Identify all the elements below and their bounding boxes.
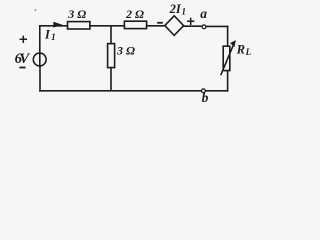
diamond plus sign [187,18,194,25]
wire through source [39,53,41,66]
speckle dot (scan artifact) [35,9,37,11]
wire right vertical (bottom) [227,71,229,91]
source plus sign [20,36,27,43]
dependent source diamond 2I1 [165,16,184,36]
svg-text:3 Ω: 3 Ω [67,7,86,21]
node b (open terminal) [202,89,206,93]
wire left vertical (top) [39,26,41,53]
wire top-left horizontal (source to 3-ohm resistor) [40,25,68,27]
resistor 2 ohm [124,21,146,28]
wire left vertical (bottom) [39,66,41,91]
wire node a to top-right corner [206,25,228,27]
current arrow I1 [54,22,62,27]
wire right vertical (top) [227,26,229,46]
wire diamond to node a [184,25,202,27]
wire 2-ohm to dependent source [147,25,165,27]
RL variable arrow [221,44,234,75]
voltage source 6V circle [33,53,46,66]
wire middle branch vertical (top) [110,26,112,44]
node a (open terminal) [202,25,206,29]
svg-text:6V: 6V [15,51,31,67]
svg-text:2 Ω: 2 Ω [125,7,144,21]
resistor RL box [223,46,230,70]
wire bottom from corner to node b [206,90,228,92]
resistor 3 ohm (top, series) [68,22,90,29]
diamond minus sign [157,22,163,24]
wire middle branch vertical (bottom) [110,68,112,91]
svg-text:a: a [200,6,207,21]
wire between 3-ohm and 2-ohm resistors [90,25,125,27]
svg-text:3 Ω: 3 Ω [116,43,135,57]
resistor 3 ohm (middle, shunt) [108,44,115,68]
svg-text:b: b [202,90,209,105]
wire bottom from node b to left corner [40,90,201,92]
source minus sign [19,67,25,69]
